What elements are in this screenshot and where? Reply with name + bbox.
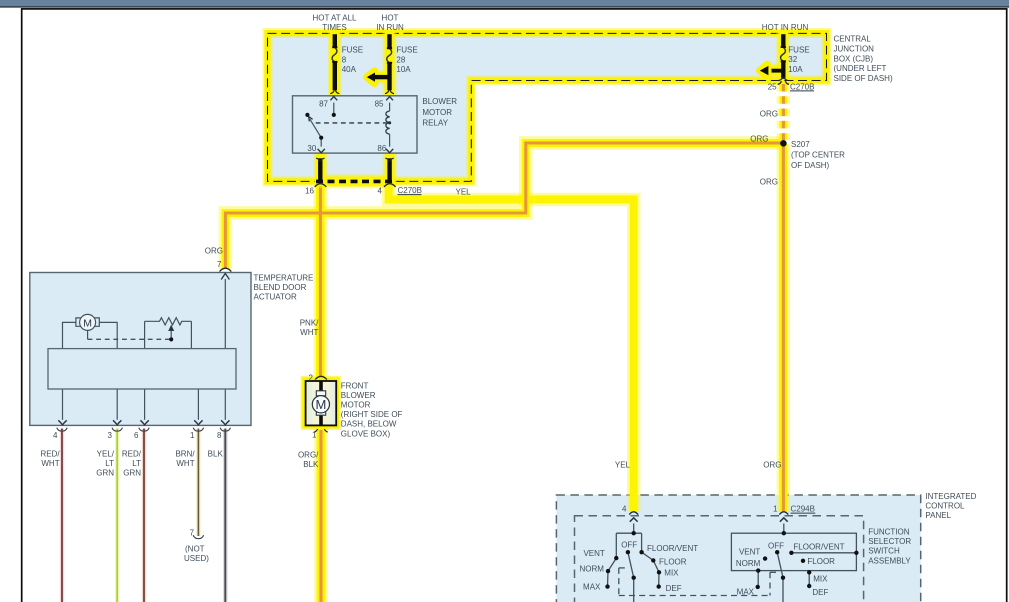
- svg-text:DASH, BELOW: DASH, BELOW: [341, 420, 397, 429]
- svg-text:(RIGHT SIDE OF: (RIGHT SIDE OF: [341, 410, 403, 419]
- svg-text:(NOT: (NOT: [185, 545, 205, 554]
- svg-text:OF DASH): OF DASH): [791, 161, 830, 170]
- svg-text:86: 86: [377, 144, 386, 153]
- svg-text:ORG: ORG: [760, 178, 778, 187]
- svg-text:IN RUN: IN RUN: [376, 23, 404, 32]
- svg-text:4: 4: [378, 186, 383, 195]
- svg-text:ACTUATOR: ACTUATOR: [254, 293, 297, 302]
- svg-text:30: 30: [307, 144, 316, 153]
- svg-text:FUSE: FUSE: [342, 46, 363, 55]
- svg-text:OFF: OFF: [768, 541, 784, 550]
- svg-text:28: 28: [396, 55, 405, 64]
- svg-text:8: 8: [342, 55, 347, 64]
- svg-text:WHT: WHT: [176, 459, 194, 468]
- svg-text:C270B: C270B: [398, 186, 422, 195]
- svg-text:ORG: ORG: [750, 134, 768, 143]
- svg-text:C294B: C294B: [791, 505, 815, 514]
- svg-text:FLOOR/VENT: FLOOR/VENT: [793, 543, 844, 552]
- svg-text:ORG: ORG: [763, 460, 781, 469]
- svg-text:MAX: MAX: [737, 587, 755, 596]
- svg-text:VENT: VENT: [583, 549, 604, 558]
- svg-text:LT: LT: [132, 459, 141, 468]
- svg-text:MOTOR: MOTOR: [341, 401, 371, 410]
- svg-text:BLK: BLK: [208, 450, 224, 459]
- svg-text:25: 25: [768, 82, 777, 91]
- svg-text:INTEGRATED: INTEGRATED: [925, 492, 976, 501]
- svg-text:NORM: NORM: [579, 564, 604, 573]
- svg-text:MAX: MAX: [583, 583, 601, 592]
- svg-text:FUSE: FUSE: [788, 45, 809, 54]
- svg-text:10A: 10A: [396, 65, 411, 74]
- svg-text:TEMPERATURE: TEMPERATURE: [254, 274, 314, 283]
- svg-text:YEL: YEL: [615, 460, 631, 469]
- svg-text:FLOOR: FLOOR: [659, 557, 687, 566]
- svg-text:ORG: ORG: [205, 247, 223, 256]
- svg-text:WHT: WHT: [300, 328, 318, 337]
- svg-text:6: 6: [134, 431, 139, 440]
- svg-text:M: M: [315, 397, 326, 412]
- svg-text:PNK/: PNK/: [300, 319, 319, 328]
- svg-text:16: 16: [305, 186, 314, 195]
- svg-text:FUSE: FUSE: [396, 46, 417, 55]
- svg-text:GLOVE BOX): GLOVE BOX): [341, 429, 391, 438]
- svg-text:HOT: HOT: [382, 13, 399, 22]
- svg-text:MIX: MIX: [664, 569, 679, 578]
- svg-text:BOX (CJB): BOX (CJB): [834, 54, 874, 63]
- svg-text:SIDE OF DASH): SIDE OF DASH): [834, 74, 893, 83]
- svg-text:JUNCTION: JUNCTION: [834, 44, 875, 53]
- svg-text:VENT: VENT: [739, 548, 760, 557]
- svg-text:CONTROL: CONTROL: [925, 502, 965, 511]
- svg-text:40A: 40A: [342, 65, 357, 74]
- svg-text:87: 87: [319, 99, 328, 108]
- svg-text:ORG/: ORG/: [298, 451, 319, 460]
- svg-text:1: 1: [312, 431, 317, 440]
- svg-text:RELAY: RELAY: [422, 119, 448, 128]
- svg-text:YEL: YEL: [456, 187, 472, 196]
- svg-text:10A: 10A: [788, 65, 803, 74]
- svg-text:7: 7: [217, 260, 222, 269]
- svg-text:FLOOR/VENT: FLOOR/VENT: [647, 544, 698, 553]
- svg-text:4: 4: [622, 505, 627, 514]
- svg-text:CENTRAL: CENTRAL: [834, 35, 872, 44]
- svg-text:ORG: ORG: [760, 110, 778, 119]
- svg-text:(UNDER LEFT: (UNDER LEFT: [834, 64, 887, 73]
- svg-text:NORM: NORM: [736, 559, 761, 568]
- svg-text:DEF: DEF: [666, 584, 682, 593]
- svg-text:M: M: [83, 317, 92, 329]
- svg-text:BLEND DOOR: BLEND DOOR: [254, 283, 307, 292]
- svg-text:BLOWER: BLOWER: [341, 391, 376, 400]
- svg-text:4: 4: [53, 431, 58, 440]
- svg-text:1: 1: [190, 431, 195, 440]
- svg-text:USED): USED): [184, 554, 209, 563]
- svg-text:SELECTOR: SELECTOR: [868, 537, 911, 546]
- svg-text:(TOP CENTER: (TOP CENTER: [791, 150, 845, 159]
- svg-text:ASSEMBLY: ASSEMBLY: [868, 556, 911, 565]
- svg-text:YEL/: YEL/: [97, 450, 115, 459]
- svg-text:TIMES: TIMES: [322, 23, 346, 32]
- svg-text:LT: LT: [105, 459, 114, 468]
- svg-text:BLK: BLK: [303, 460, 319, 469]
- svg-text:BLOWER: BLOWER: [422, 97, 457, 106]
- svg-text:PANEL: PANEL: [925, 511, 951, 520]
- svg-text:SWITCH: SWITCH: [868, 547, 900, 556]
- svg-text:HOT IN RUN: HOT IN RUN: [762, 23, 809, 32]
- svg-text:85: 85: [375, 99, 384, 108]
- svg-text:8: 8: [217, 431, 222, 440]
- svg-text:GRN: GRN: [96, 469, 114, 478]
- svg-text:WHT: WHT: [41, 459, 59, 468]
- svg-text:2: 2: [308, 373, 313, 382]
- svg-text:DEF: DEF: [812, 588, 828, 597]
- svg-text:1: 1: [773, 505, 778, 514]
- svg-text:MIX: MIX: [813, 575, 828, 584]
- svg-text:FUNCTION: FUNCTION: [868, 528, 910, 537]
- svg-text:OFF: OFF: [621, 540, 637, 549]
- svg-text:HOT AT ALL: HOT AT ALL: [312, 13, 357, 22]
- svg-text:3: 3: [108, 431, 113, 440]
- svg-text:GRN: GRN: [123, 469, 141, 478]
- svg-text:7: 7: [190, 529, 195, 538]
- svg-text:BRN/: BRN/: [175, 450, 195, 459]
- svg-text:FRONT: FRONT: [341, 381, 369, 390]
- svg-text:S207: S207: [791, 140, 810, 149]
- svg-text:RED/: RED/: [122, 450, 142, 459]
- svg-text:RED/: RED/: [40, 450, 60, 459]
- svg-text:32: 32: [788, 55, 797, 64]
- svg-text:FLOOR: FLOOR: [807, 557, 835, 566]
- svg-text:C270B: C270B: [790, 82, 814, 91]
- svg-text:MOTOR: MOTOR: [422, 108, 452, 117]
